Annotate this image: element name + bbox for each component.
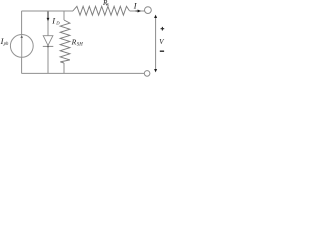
wire Rsh branch lower	[63, 63, 65, 73]
svg-text:V: V	[159, 38, 164, 46]
current source Iph circle	[10, 35, 33, 58]
wire Rsh branch upper	[63, 11, 65, 20]
current arrow I	[136, 10, 139, 12]
label plus	[161, 27, 165, 31]
resistor RSH zigzag	[60, 20, 70, 63]
diode D1 triangle	[43, 36, 53, 46]
svg-text:ph: ph	[3, 42, 9, 47]
wire diode branch upper	[47, 11, 49, 36]
label minus	[160, 50, 164, 52]
current source arrow	[21, 37, 23, 58]
svg-text:I: I	[133, 2, 138, 11]
wire top rail	[22, 10, 74, 12]
wire left branch upper	[21, 11, 23, 35]
voltage annotation arrow V	[155, 17, 157, 71]
top terminal	[145, 7, 152, 14]
bottom terminal	[144, 71, 150, 77]
junction dot	[47, 46, 49, 48]
wire to output terminal	[130, 10, 145, 12]
svg-text:D: D	[55, 20, 60, 25]
svg-text:SH: SH	[77, 43, 83, 48]
wire diode branch lower	[47, 46, 49, 73]
svg-text:S: S	[106, 2, 109, 7]
resistor RS zigzag	[73, 6, 130, 15]
svg-text:R: R	[71, 38, 77, 47]
wire left branch lower	[21, 57, 23, 73]
diode current arrow ID	[47, 12, 49, 19]
diode cathode bar	[43, 45, 54, 47]
wire bottom rail	[22, 72, 145, 74]
